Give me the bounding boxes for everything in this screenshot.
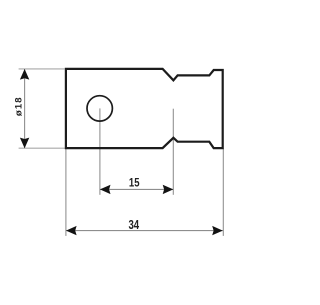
svg-text:ø18: ø18 [13, 96, 24, 116]
svg-text:34: 34 [128, 219, 139, 233]
svg-text:15: 15 [129, 176, 140, 189]
arrowhead 15 right [163, 185, 174, 194]
dimension line ø18 (vertical) [24, 69, 26, 148]
hole circle [87, 96, 112, 121]
center line from hole down (for dim 15) [99, 108, 101, 194]
extension line bottom-left corner (for dim 34) [65, 149, 67, 236]
extension line bottom-left (for ø18) [19, 147, 67, 149]
part outline (adapter profile) [66, 69, 223, 148]
arrowhead ø18 down [20, 138, 29, 149]
arrowhead ø18 up [20, 69, 29, 80]
arrowhead 15 left [100, 185, 111, 194]
arrowhead 34 right [212, 226, 223, 235]
extension line at groove (for dim 15) [172, 109, 174, 195]
arrowhead 34 left [66, 226, 77, 235]
dimension line 34 (horizontal) [66, 230, 223, 232]
extension line bottom-right corner (for dim 34) [222, 148, 224, 236]
extension line top-left (for ø18) [19, 68, 65, 70]
dimension line 15 (horizontal) [100, 188, 173, 190]
